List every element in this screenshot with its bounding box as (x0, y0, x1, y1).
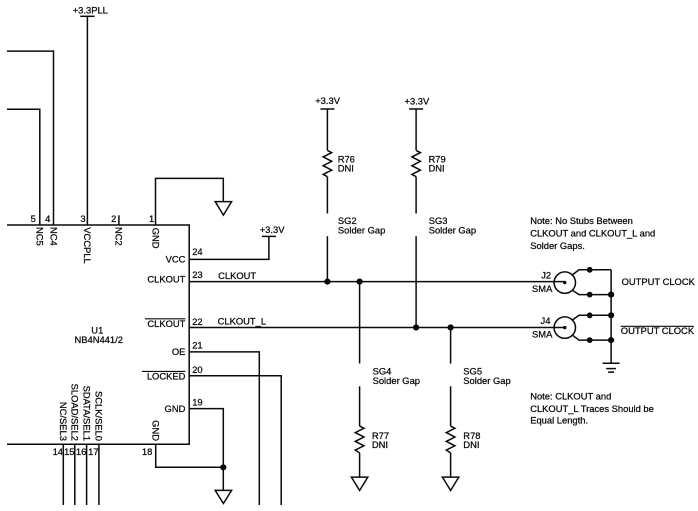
pin dot (587, 267, 593, 273)
wire (450, 386, 452, 426)
svg-text:+3.3V: +3.3V (405, 95, 431, 106)
pin dot (587, 337, 593, 343)
junction CLKOUT_L/SG5 (448, 324, 454, 330)
svg-text:Solder Gaps.: Solder Gaps. (530, 240, 585, 251)
note 2 (530, 391, 654, 426)
svg-text:NC2: NC2 (114, 227, 125, 246)
svg-text:DNI: DNI (338, 163, 354, 174)
wire (crosses CLKOUT, joins CLKOUT_L) (415, 236, 417, 327)
solder gap SG3 (429, 215, 476, 235)
svg-text:+3.3PLL: +3.3PLL (73, 4, 108, 15)
wire (326, 177, 328, 214)
svg-text:CLKOUT: CLKOUT (147, 318, 185, 329)
wire GND pin 19 (189, 409, 223, 468)
wire (326, 236, 328, 281)
wire VCCPLL pin 3 (86, 16, 88, 225)
svg-text:Solder Gap: Solder Gap (463, 375, 510, 386)
svg-text:16: 16 (76, 446, 86, 457)
svg-text:SDATA/SEL1: SDATA/SEL1 (81, 386, 92, 441)
svg-text:24: 24 (192, 246, 202, 257)
wire (359, 386, 361, 426)
pin 24 VCC wire and +3.3V (189, 224, 285, 259)
svg-text:22: 22 (192, 316, 202, 327)
ground (pin 18/19) (215, 490, 231, 503)
ground (R78) (442, 477, 458, 490)
wire to ground (222, 467, 224, 490)
resistor R76 (323, 150, 332, 176)
bottom pin lines 14-17 (62, 444, 64, 505)
svg-text:VCC: VCC (166, 254, 186, 265)
wire (359, 453, 361, 477)
svg-text:SMA: SMA (532, 283, 553, 294)
svg-text:J4: J4 (541, 315, 551, 326)
note 1 (530, 215, 655, 251)
wire J4 shield bottom (573, 335, 612, 340)
solder gap SG5 (463, 365, 510, 385)
svg-text:SMA: SMA (532, 329, 553, 340)
svg-text:DNI: DNI (372, 439, 388, 450)
ground (R77) (351, 477, 367, 490)
earth ground (603, 363, 620, 372)
svg-text:NB4N441/2: NB4N441/2 (74, 334, 122, 345)
resistor R77 (355, 426, 364, 453)
connector J2 SMA (532, 269, 576, 294)
wire J2 shield bottom (572, 290, 611, 294)
svg-text:14: 14 (53, 446, 63, 457)
svg-text:NC4: NC4 (48, 227, 59, 246)
power +3.3V (R79) (405, 95, 431, 109)
svg-text:20: 20 (192, 364, 202, 375)
IC U1 box (7, 225, 189, 444)
power +3.3V (R76) (315, 95, 341, 109)
junction bus/J4 top (608, 312, 614, 318)
wire J4 shield top (573, 315, 612, 320)
power symbol +3.3PLL (73, 4, 108, 16)
svg-text:+3.3V: +3.3V (315, 95, 341, 106)
wire (450, 453, 452, 477)
ground (pin 1) (215, 202, 231, 216)
wire LOCKED pin 20 (189, 376, 281, 505)
svg-text:19: 19 (192, 397, 202, 408)
wire (415, 109, 417, 150)
svg-text:Solder Gap: Solder Gap (429, 224, 476, 235)
pin stub NC2 pin 2 (118, 215, 120, 225)
svg-text:3: 3 (80, 213, 85, 224)
pin name LOCKED (overline) (142, 371, 186, 382)
wire NC4 pin 4 (7, 51, 54, 225)
svg-text:LOCKED: LOCKED (147, 371, 186, 382)
svg-text:15: 15 (64, 446, 74, 457)
wire (415, 177, 417, 214)
solder gap SG4 (373, 365, 420, 385)
svg-text:21: 21 (192, 339, 202, 350)
resistor R79 (412, 150, 421, 176)
svg-text:2: 2 (111, 213, 116, 224)
solder gap SG2 (338, 215, 385, 235)
wire (326, 109, 328, 150)
pin dot (587, 312, 593, 318)
svg-text:GND: GND (165, 403, 186, 414)
svg-text:18: 18 (142, 446, 152, 457)
wire GND pin 1 (156, 178, 224, 225)
svg-text:4: 4 (45, 213, 50, 224)
svg-text:VCCPLL: VCCPLL (82, 227, 93, 263)
svg-text:NC/SEL3: NC/SEL3 (58, 402, 69, 441)
svg-text:OUTPUT CLOCK: OUTPUT CLOCK (622, 276, 696, 287)
svg-text:NC5: NC5 (35, 227, 46, 246)
connector J4 SMA (532, 315, 576, 339)
pin name CLKOUT (22, overline) (145, 318, 186, 329)
wire J2 shield top (572, 270, 611, 275)
svg-text:GND: GND (151, 420, 162, 441)
svg-text:CLKOUT: CLKOUT (218, 270, 256, 281)
svg-text:CLKOUT: CLKOUT (147, 274, 185, 285)
svg-text:CLKOUT and CLKOUT_L and: CLKOUT and CLKOUT_L and (530, 228, 655, 239)
svg-text:CLKOUT_L Traces Should be: CLKOUT_L Traces Should be (530, 403, 654, 414)
junction CLKOUT_L/SG3 (413, 324, 419, 330)
junction CLKOUT/SG2 (324, 279, 330, 285)
junction GND node (220, 464, 226, 470)
wire OE pin 21 (189, 352, 259, 505)
pin dot (587, 292, 593, 298)
wire ground bus (610, 270, 612, 363)
svg-text:17: 17 (88, 446, 98, 457)
svg-text:Solder Gap: Solder Gap (373, 375, 420, 386)
wire SG5 (450, 328, 452, 364)
wire NC5 pin 5 (7, 109, 40, 225)
svg-text:OE: OE (172, 346, 186, 357)
junction bus/J2 (608, 292, 614, 298)
svg-text:CLKOUT_L: CLKOUT_L (218, 315, 266, 326)
svg-text:1: 1 (149, 213, 154, 224)
svg-text:Equal Length.: Equal Length. (530, 415, 588, 426)
junction bus/J4 bottom (608, 337, 614, 343)
wire SG4 (crosses CLKOUT_L) (359, 282, 361, 364)
net label OUTPUT CLOCK (inverted, overline) (621, 325, 695, 336)
svg-text:GND: GND (150, 228, 161, 249)
svg-text:Note: CLKOUT and: Note: CLKOUT and (530, 391, 611, 402)
svg-text:23: 23 (192, 269, 202, 280)
svg-text:SLOAD/SEL2: SLOAD/SEL2 (70, 384, 81, 441)
svg-text:Note: No Stubs Between: Note: No Stubs Between (530, 215, 633, 226)
wire CLKOUT (pin 23 to J2) (189, 281, 565, 283)
svg-text:DNI: DNI (429, 163, 445, 174)
svg-text:DNI: DNI (463, 439, 479, 450)
svg-text:Solder Gap: Solder Gap (338, 224, 385, 235)
svg-text:5: 5 (31, 213, 36, 224)
wire CLKOUT_L (pin 22 to J4) (189, 327, 565, 329)
svg-text:SCLK/SEL0: SCLK/SEL0 (94, 391, 105, 441)
svg-text:+3.3V: +3.3V (260, 224, 286, 235)
wire GND pin 18 (156, 444, 224, 467)
junction CLKOUT/SG4 (357, 279, 363, 285)
resistor R78 (446, 426, 455, 453)
svg-text:J2: J2 (541, 269, 551, 280)
